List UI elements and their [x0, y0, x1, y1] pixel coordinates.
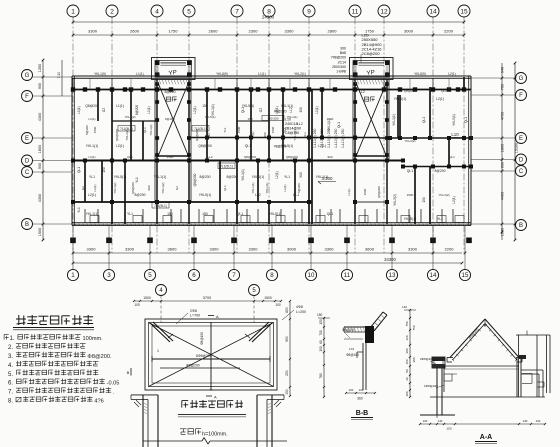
rotated callout labels left of shaft 2 — [313, 128, 345, 148]
notes block (first floor structural plan notes) — [4, 315, 119, 405]
svg-text:YL1: YL1 — [283, 127, 287, 133]
svg-text:3000: 3000 — [404, 29, 414, 34]
svg-text:240C18: 240C18 — [285, 122, 298, 126]
vertical grid axis lines — [73, 18, 464, 254]
svg-text:C: C — [25, 170, 30, 176]
svg-text:4?6: 4?6 — [94, 399, 103, 405]
grid bubble B (left) — [22, 219, 33, 230]
svg-text:YKL1(1): YKL1(1) — [252, 175, 264, 179]
svg-text:YKL5(1): YKL5(1) — [114, 175, 126, 179]
svg-text:YP: YP — [168, 69, 177, 77]
grid bubble 8 (bottom) — [266, 253, 277, 281]
grid bubble D (left) — [22, 155, 33, 166]
svg-text:8@200: 8@200 — [135, 105, 139, 116]
svg-text:L1(1): L1(1) — [116, 104, 124, 108]
svg-text:780: 780 — [319, 373, 323, 379]
grid bubble E (left) — [22, 133, 33, 144]
svg-text:750: 750 — [405, 321, 409, 326]
svg-text:1500: 1500 — [38, 228, 42, 236]
svg-text:3700: 3700 — [203, 296, 211, 300]
svg-text:15: 15 — [460, 8, 468, 15]
svg-text:1500: 1500 — [407, 193, 414, 197]
svg-text:940: 940 — [501, 67, 505, 73]
svg-text:L2(1): L2(1) — [93, 184, 97, 191]
svg-text:YKL1(1): YKL1(1) — [316, 175, 328, 179]
svg-text:170: 170 — [349, 347, 354, 351]
svg-text:700: 700 — [319, 330, 323, 336]
section detail B-B — [317, 312, 387, 420]
svg-text:11: 11 — [352, 8, 359, 15]
svg-text:1500: 1500 — [501, 228, 505, 236]
svg-text:YL1: YL1 — [437, 217, 443, 221]
svg-text:5.: 5. — [8, 372, 13, 378]
svg-text:150: 150 — [319, 346, 323, 352]
svg-text:B-B: B-B — [356, 410, 368, 417]
svg-text:QL1: QL1 — [77, 167, 81, 173]
svg-text:YKL3(2): YKL3(2) — [404, 139, 415, 143]
grid bubble E (right) — [516, 133, 527, 144]
svg-text:3300: 3300 — [88, 29, 98, 34]
svg-text:8@200: 8@200 — [200, 175, 211, 179]
svg-text:QL1: QL1 — [245, 144, 252, 148]
svg-text:LL2: LL2 — [289, 107, 293, 113]
svg-text:L2(1): L2(1) — [283, 184, 287, 191]
svg-text:900: 900 — [38, 83, 42, 89]
svg-text:7.: 7. — [8, 390, 13, 396]
svg-text:L2(1): L2(1) — [318, 144, 326, 148]
svg-text:100: 100 — [359, 388, 364, 392]
svg-text:YKL5(1): YKL5(1) — [269, 212, 281, 216]
svg-text:150: 150 — [317, 313, 323, 317]
svg-text:1Φ8@200: 1Φ8@200 — [424, 384, 438, 388]
svg-text:13: 13 — [389, 272, 396, 279]
svg-text:GZ: GZ — [102, 108, 106, 112]
svg-text:2: 2 — [110, 8, 114, 15]
svg-text:G: G — [519, 76, 524, 82]
stair shaft with X-brace (grid 11-12) — [353, 79, 389, 224]
svg-text:100: 100 — [134, 303, 140, 307]
svg-text:140: 140 — [402, 305, 407, 309]
svg-text:1500: 1500 — [237, 126, 241, 133]
svg-text:8@200: 8@200 — [85, 125, 89, 135]
svg-text:YL1: YL1 — [127, 212, 133, 216]
svg-text:Q8@200: Q8@200 — [198, 144, 212, 148]
grid bubble 15 (bottom) — [459, 253, 470, 281]
svg-text:Q8@200: Q8@200 — [85, 104, 99, 108]
grid bubble 10 (bottom) — [305, 253, 316, 281]
svg-text:100: 100 — [423, 419, 428, 423]
svg-text:900: 900 — [299, 172, 303, 178]
svg-text:250X300: 250X300 — [332, 65, 346, 69]
svg-text:QL1: QL1 — [441, 89, 447, 93]
svg-text:YKL5(1): YKL5(1) — [452, 114, 456, 126]
svg-text:1500: 1500 — [93, 126, 97, 133]
svg-text:1: 1 — [157, 349, 159, 353]
svg-text:150: 150 — [422, 197, 426, 203]
svg-text:8@200: 8@200 — [165, 117, 175, 121]
svg-text:1800: 1800 — [38, 145, 42, 153]
svg-text:8@200: 8@200 — [227, 175, 238, 179]
svg-text:7.20: 7.20 — [57, 72, 61, 79]
canopy YP over entrance 2 — [350, 58, 394, 85]
svg-text:YL1: YL1 — [223, 127, 227, 133]
top dimension chain — [72, 15, 466, 37]
svg-text:G: G — [25, 73, 30, 79]
svg-text:3.: 3. — [8, 354, 13, 360]
building outer walls — [72, 76, 471, 225]
svg-text:YKL3(2): YKL3(2) — [124, 115, 135, 119]
svg-text:360: 360 — [357, 397, 363, 401]
bottom wall hatch — [74, 223, 469, 225]
svg-text:300: 300 — [340, 47, 346, 51]
svg-text:YKL3(2): YKL3(2) — [393, 194, 397, 206]
svg-text:3300: 3300 — [325, 247, 335, 252]
svg-text:4Φ8: 4Φ8 — [296, 305, 303, 309]
svg-text:750: 750 — [501, 84, 505, 90]
level mark 3.300 — [318, 176, 336, 184]
svg-text:4300: 4300 — [38, 194, 42, 202]
svg-text:5: 5 — [148, 272, 152, 279]
svg-text:B#8: B#8 — [340, 51, 346, 55]
svg-text:1800: 1800 — [501, 144, 505, 152]
grid bubble 8 (top) — [263, 5, 275, 17]
svg-text:QL1: QL1 — [464, 117, 468, 123]
svg-text:900: 900 — [38, 163, 42, 169]
svg-text:3000: 3000 — [287, 247, 297, 252]
svg-text:11: 11 — [344, 272, 351, 279]
svg-text:150: 150 — [202, 104, 208, 108]
svg-text:Q8@200: Q8@200 — [131, 182, 135, 194]
grid bubble G (right) — [516, 73, 527, 84]
grid bubble 11 (top) — [349, 5, 361, 17]
svg-text:3300: 3300 — [210, 247, 220, 252]
svg-text:4: 4 — [155, 8, 159, 15]
svg-text:2300: 2300 — [249, 29, 259, 34]
svg-text:L10: L10 — [451, 132, 459, 137]
svg-text:QL1: QL1 — [237, 212, 244, 216]
grid bubble 2 (top) — [106, 5, 118, 17]
svg-text:Q8@200: Q8@200 — [115, 129, 119, 141]
svg-text:2Φ8@200: 2Φ8@200 — [420, 357, 434, 361]
svg-text:YL1: YL1 — [284, 175, 290, 179]
svg-text:C: C — [519, 169, 524, 175]
svg-text:-0.05: -0.05 — [107, 381, 120, 387]
svg-text:QL1: QL1 — [303, 132, 307, 138]
svg-text:8@200: 8@200 — [435, 169, 446, 173]
svg-text:Φ8@180: Φ8@180 — [346, 353, 359, 357]
svg-text:L=700: L=700 — [190, 314, 200, 318]
svg-text:8: 8 — [270, 272, 274, 279]
svg-text:A: A — [216, 314, 219, 319]
svg-text:150: 150 — [167, 212, 173, 216]
right dimension chain — [471, 62, 519, 242]
svg-text:Φ8@200.: Φ8@200. — [87, 354, 112, 360]
svg-text:YP: YP — [366, 69, 375, 77]
svg-text:L1(1): L1(1) — [347, 188, 351, 195]
svg-text:QL1: QL1 — [337, 122, 341, 128]
svg-text:150: 150 — [102, 167, 106, 173]
svg-text:GZ: GZ — [175, 186, 179, 190]
svg-text:1500: 1500 — [264, 296, 272, 300]
grid bubble B (right) — [516, 220, 527, 231]
svg-text:150: 150 — [319, 319, 323, 325]
grid bubble F (left) — [22, 91, 33, 102]
svg-text:Q8@200: Q8@200 — [404, 89, 416, 93]
svg-text:Q8@200: Q8@200 — [244, 155, 256, 159]
svg-text:750: 750 — [412, 325, 416, 330]
interior horizontal walls — [72, 121, 471, 202]
svg-text:1-L10(2) 250: 1-L10(2) 250 — [313, 128, 317, 148]
svg-text:6.: 6. — [8, 381, 13, 387]
svg-text:2600: 2600 — [209, 29, 219, 34]
bottom dimension chain — [72, 247, 467, 265]
svg-text:YKL5(1): YKL5(1) — [394, 97, 406, 101]
svg-text:YKL1(1): YKL1(1) — [265, 182, 269, 193]
svg-text:YKL3(2): YKL3(2) — [149, 124, 153, 135]
section detail A-A with pitched roof — [402, 305, 550, 444]
interior columns — [71, 159, 473, 205]
svg-text:3300: 3300 — [285, 29, 295, 34]
column footing squares below plan — [70, 225, 472, 253]
svg-text:600: 600 — [501, 162, 505, 168]
grid bubble C (right) — [516, 166, 527, 177]
beam callout block near grid 9 — [262, 110, 301, 149]
svg-text:L1(1): L1(1) — [136, 72, 143, 76]
boxed beam labels — [118, 126, 235, 209]
svg-text:LL2: LL2 — [359, 90, 365, 94]
svg-text:YL1: YL1 — [135, 177, 139, 183]
svg-text:L1(1): L1(1) — [315, 106, 319, 113]
svg-text:4400: 4400 — [501, 192, 505, 200]
svg-text:L2(1): L2(1) — [452, 196, 456, 203]
svg-text:QL1: QL1 — [127, 155, 133, 159]
svg-text:3600: 3600 — [168, 247, 178, 252]
svg-text:LL2: LL2 — [255, 193, 261, 197]
svg-text:QL1: QL1 — [422, 117, 426, 123]
svg-text:QL1: QL1 — [223, 185, 227, 191]
grid bubble 11 (bottom) — [341, 253, 352, 281]
svg-text:1750: 1750 — [169, 29, 179, 34]
left dimension chain — [32, 59, 72, 242]
svg-text:1: 1 — [71, 272, 75, 279]
svg-text:7L1(5L1): 7L1(5L1) — [154, 204, 167, 208]
svg-text:YKL2(1): YKL2(1) — [294, 72, 306, 76]
svg-text:100: 100 — [536, 419, 541, 423]
svg-text:D: D — [25, 159, 30, 165]
svg-text:1500: 1500 — [327, 117, 334, 121]
svg-text:4300: 4300 — [38, 113, 42, 121]
svg-text:7L1(5L1): 7L1(5L1) — [194, 127, 207, 131]
svg-text:YKL3(2): YKL3(2) — [438, 193, 449, 197]
svg-text:2200: 2200 — [445, 247, 455, 252]
svg-text:L1(1): L1(1) — [77, 106, 81, 113]
grid bubble 13 (bottom) — [386, 253, 397, 281]
svg-text:F: F — [519, 93, 523, 99]
grid bubble 14 (top) — [427, 5, 439, 17]
svg-text:2600: 2600 — [130, 29, 140, 34]
svg-text:L2(1): L2(1) — [275, 106, 279, 113]
wall line F with columns — [71, 87, 473, 140]
svg-text:L1(1): L1(1) — [258, 72, 265, 76]
svg-text:3300: 3300 — [249, 247, 259, 252]
svg-text:B: B — [127, 370, 130, 375]
svg-text:3300: 3300 — [87, 247, 97, 252]
svg-text:8@200: 8@200 — [165, 90, 176, 94]
svg-text:150: 150 — [202, 212, 208, 216]
svg-text:LL2: LL2 — [207, 155, 212, 159]
grid bubble F (right) — [516, 90, 527, 101]
svg-text:YKL1(9): YKL1(9) — [94, 72, 106, 76]
svg-text:1500: 1500 — [271, 126, 275, 133]
svg-text:850: 850 — [285, 307, 289, 313]
svg-text:7L1(5L1): 7L1(5L1) — [220, 164, 233, 168]
grid bubble 1 (top) — [67, 5, 79, 17]
svg-text:1500: 1500 — [143, 296, 151, 300]
svg-text:L2(1): L2(1) — [448, 72, 455, 76]
svg-text:100: 100 — [275, 303, 281, 307]
svg-text:YKL5(1): YKL5(1) — [199, 193, 211, 197]
svg-text:2800: 2800 — [328, 29, 338, 34]
svg-text:1.: 1. — [10, 336, 15, 342]
svg-text:Φ8@200: Φ8@200 — [342, 328, 355, 332]
svg-text:QL1: QL1 — [143, 127, 147, 133]
svg-text:6: 6 — [192, 272, 196, 279]
svg-text:D: D — [519, 158, 524, 164]
svg-text:YKL1(1): YKL1(1) — [86, 144, 98, 148]
svg-text:7L1(5L1): 7L1(5L1) — [120, 127, 133, 131]
svg-text:L1(1): L1(1) — [88, 117, 95, 121]
svg-text:QL1: QL1 — [327, 212, 334, 216]
svg-text:20: 20 — [405, 377, 409, 381]
svg-text:YKL3(2): YKL3(2) — [113, 182, 117, 193]
svg-text:LL2: LL2 — [297, 122, 303, 126]
stair shaft with X-brace (grid 4-5) — [155, 79, 191, 224]
svg-text:100mm.: 100mm. — [83, 336, 104, 342]
svg-text:3: 3 — [107, 272, 111, 279]
svg-text:Q8@200: Q8@200 — [377, 186, 381, 198]
grid bubble 3 (bottom) — [103, 253, 114, 281]
svg-text:4700: 4700 — [501, 112, 505, 120]
svg-text:10: 10 — [308, 272, 315, 279]
L10 beam label — [447, 132, 463, 138]
canopy YP over entrance 1 — [152, 58, 196, 85]
svg-text:380: 380 — [412, 357, 416, 362]
svg-text:Q8@200: Q8@200 — [193, 173, 197, 186]
grid bubble 4 (top) — [151, 5, 163, 17]
svg-text:150: 150 — [285, 389, 289, 395]
svg-text:2C8@200: 2C8@200 — [362, 51, 381, 56]
svg-text:100: 100 — [349, 388, 354, 392]
svg-text:900: 900 — [147, 185, 151, 190]
grid bubble 6 (bottom) — [188, 253, 199, 281]
grid bubble 12 (top) — [378, 5, 390, 17]
svg-text:A-A: A-A — [480, 434, 492, 441]
svg-text:1500: 1500 — [363, 188, 367, 195]
svg-text:60: 60 — [319, 340, 323, 344]
svg-text:Φ8@150: Φ8@150 — [200, 332, 204, 345]
svg-text:12: 12 — [380, 8, 388, 15]
svg-text:8.: 8. — [8, 399, 13, 405]
svg-text:B: B — [25, 222, 29, 228]
svg-text:YKL3(2): YKL3(2) — [161, 182, 165, 193]
canopy plan reinforcement detail — [127, 285, 306, 447]
svg-text:QL1: QL1 — [407, 169, 414, 173]
svg-text:9: 9 — [307, 8, 311, 15]
svg-text:GZ: GZ — [81, 186, 85, 190]
svg-text:YKL1(1): YKL1(1) — [241, 169, 245, 181]
svg-text:YKL8(9): YKL8(9) — [414, 72, 426, 76]
svg-text:150: 150 — [405, 359, 409, 364]
svg-text:1: 1 — [71, 8, 75, 15]
svg-text:QL1: QL1 — [241, 107, 245, 113]
svg-text:B: B — [519, 223, 523, 229]
beam labels in plan — [77, 89, 468, 221]
svg-text:L=200: L=200 — [296, 310, 306, 314]
svg-text:150: 150 — [446, 427, 451, 431]
svg-text:2C14: 2C14 — [338, 60, 346, 64]
svg-text:80: 80 — [405, 369, 409, 373]
svg-text:L2(1): L2(1) — [193, 106, 197, 113]
bottom strip room dividers — [85, 209, 464, 223]
svg-text:8@200: 8@200 — [135, 193, 146, 197]
svg-text:E: E — [519, 136, 523, 142]
grid bubble D (right) — [516, 154, 527, 165]
svg-text:h=100mm.: h=100mm. — [202, 431, 228, 437]
svg-text:F: F — [25, 94, 29, 100]
svg-text:5: 5 — [187, 8, 191, 15]
svg-text:YKL1(1): YKL1(1) — [154, 175, 166, 179]
grid bubble 1 (bottom) — [67, 253, 78, 281]
svg-text:3300: 3300 — [125, 247, 135, 252]
beam labels above top wall — [94, 72, 456, 76]
svg-text:L1(1): L1(1) — [251, 131, 255, 138]
svg-text:1350: 1350 — [38, 64, 42, 72]
svg-text:8@200: 8@200 — [297, 183, 301, 193]
svg-text:YKL8(9): YKL8(9) — [216, 72, 228, 76]
svg-text:YKL5(1): YKL5(1) — [404, 217, 416, 221]
svg-text:YKL5(1): YKL5(1) — [204, 115, 215, 119]
svg-text:Φ8@200: Φ8@200 — [186, 364, 200, 368]
svg-text:7: 7 — [232, 272, 236, 279]
svg-text:34300: 34300 — [384, 257, 396, 262]
svg-text:YKL1(1): YKL1(1) — [392, 114, 396, 126]
svg-text:140: 140 — [523, 419, 528, 423]
grid bubble 5 (top) — [183, 5, 195, 17]
svg-text:L1(1): L1(1) — [147, 106, 151, 113]
svg-text:E: E — [25, 136, 29, 142]
balcony strip dividers — [73, 78, 464, 89]
svg-text:L2(1): L2(1) — [436, 97, 444, 101]
grid bubble 7 (top) — [231, 5, 243, 17]
svg-text:QL1: QL1 — [449, 155, 455, 159]
svg-text:YKL1(1): YKL1(1) — [293, 129, 297, 140]
svg-text:15200: 15200 — [515, 143, 519, 154]
svg-text:YL1: YL1 — [89, 175, 95, 179]
svg-text:150: 150 — [299, 107, 303, 113]
svg-text:24300: 24300 — [262, 15, 275, 20]
svg-text:2200: 2200 — [444, 29, 454, 34]
svg-text:950: 950 — [285, 336, 289, 342]
svg-text:15: 15 — [462, 272, 469, 279]
svg-text:900: 900 — [327, 155, 332, 159]
grid bubble 9 (top) — [303, 5, 315, 17]
svg-text:7#8@200: 7#8@200 — [331, 56, 346, 60]
svg-text:GZ: GZ — [259, 108, 263, 112]
svg-text:120: 120 — [405, 335, 409, 340]
grid bubble C (left) — [22, 167, 33, 178]
svg-text:3600: 3600 — [365, 247, 375, 252]
svg-text:YKL1(1): YKL1(1) — [251, 182, 255, 193]
